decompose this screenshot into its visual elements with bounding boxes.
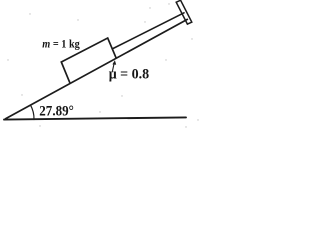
angle arc (31, 105, 35, 119)
scan speckles (7, 3, 198, 127)
mu arrow shaft (112, 63, 114, 72)
rod to wall (112, 13, 184, 49)
incline surface (6, 19, 188, 118)
ground line (4, 117, 186, 119)
mu arrowhead (112, 60, 116, 65)
block m=1kg (61, 38, 116, 82)
wall plate (176, 0, 192, 24)
svg-text:27.89°: 27.89° (39, 104, 74, 120)
svg-text:m = 1 kg: m = 1 kg (42, 37, 80, 51)
svg-text:μ = 0.8: μ = 0.8 (109, 66, 150, 82)
